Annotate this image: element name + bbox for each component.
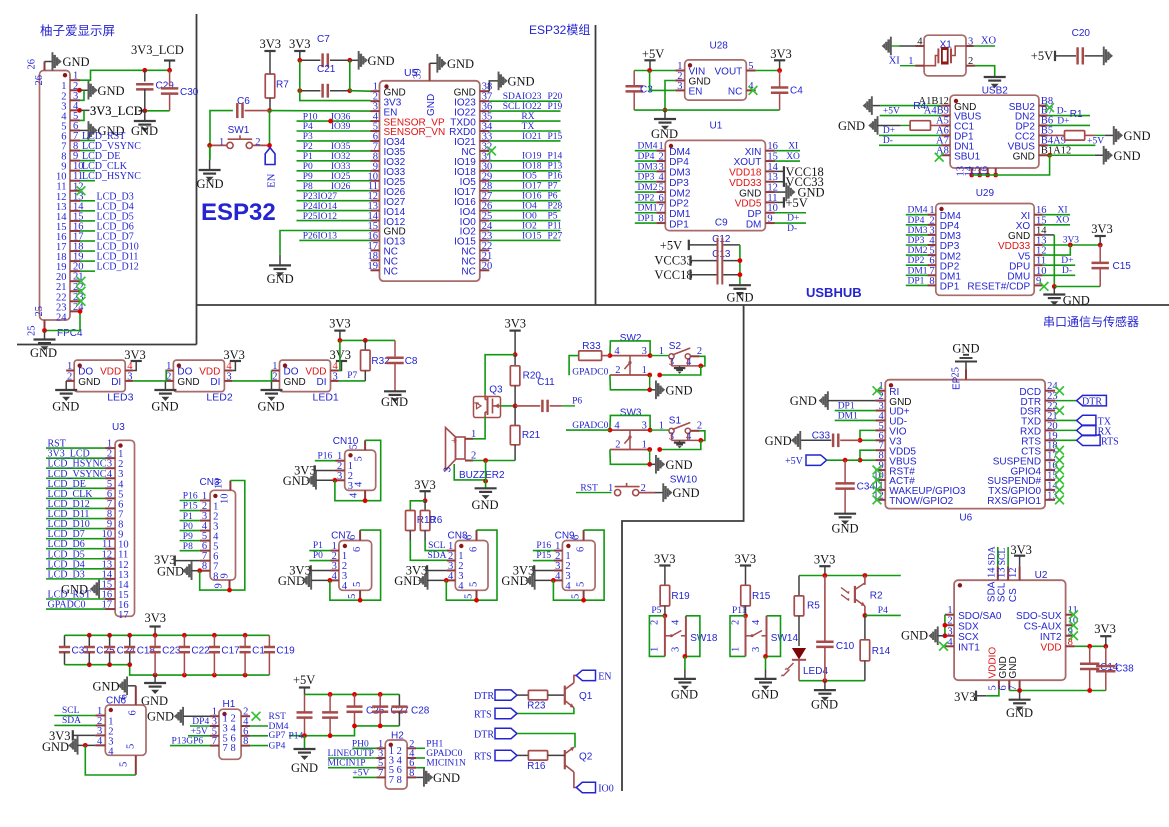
wire net LCD_D6 (46, 548, 105, 550)
svg-text:GND: GND (258, 400, 285, 414)
svg-text:3V3: 3V3 (505, 317, 527, 331)
svg-text:2: 2 (615, 440, 620, 451)
svg-text:GND: GND (278, 574, 305, 588)
wire net LCD_HSYNC (80, 180, 95, 182)
wire net P16 CN10 (315, 460, 336, 462)
wire net DP3 U1 (635, 181, 657, 183)
svg-text:+5V: +5V (1087, 137, 1104, 147)
svg-text:8: 8 (243, 736, 248, 747)
svg-text:ESP32: ESP32 (201, 199, 276, 226)
wire 3V3 rail LED4 (799, 575, 901, 577)
svg-text:GND: GND (151, 400, 178, 414)
svg-text:5: 5 (349, 444, 360, 449)
svg-text:GND: GND (952, 342, 979, 356)
capacitor C4 (779, 71, 781, 88)
wire net LCD_RST (80, 140, 95, 142)
wire R10 to SDA (410, 531, 447, 561)
svg-text:5: 5 (352, 582, 363, 587)
wire U2 pins 1-3 gnd (944, 615, 946, 636)
svg-text:2: 2 (650, 620, 661, 625)
no-connect U2 right pin10 (1069, 621, 1078, 630)
svg-text:+5V: +5V (1031, 49, 1053, 63)
wire net DM4 U29 (906, 214, 928, 216)
svg-text:2: 2 (659, 152, 664, 163)
svg-text:GND: GND (671, 688, 698, 702)
svg-text:1: 1 (908, 56, 913, 67)
resistor R14 (864, 615, 866, 639)
svg-text:7: 7 (212, 736, 217, 747)
svg-text:DM2: DM2 (638, 183, 658, 193)
capacitor C25 (88, 635, 90, 647)
gnd flag C20 (1103, 47, 1105, 66)
svg-text:GND: GND (291, 761, 318, 775)
wire net P23IO27 (297, 200, 371, 202)
wire net P0 CN7 (309, 560, 330, 562)
resistor R7 (265, 74, 275, 98)
svg-text:2: 2 (730, 620, 741, 625)
wire net LCD_D6 (80, 230, 95, 232)
svg-text:25: 25 (27, 326, 38, 337)
svg-text:P5: P5 (651, 606, 661, 616)
wire 3V3 rail R32 C8 (340, 339, 395, 341)
svg-text:NC: NC (728, 87, 742, 98)
no-connect U6 right pin18 (1055, 446, 1064, 455)
svg-text:H2: H2 (391, 731, 404, 742)
resistor R6 (424, 501, 426, 511)
svg-text:12: 12 (1008, 568, 1019, 579)
svg-text:INT1: INT1 (958, 642, 980, 653)
svg-text:IO36: IO36 (331, 112, 351, 122)
ground small S2 (679, 366, 681, 368)
capacitor C24 (109, 635, 111, 647)
svg-text:24: 24 (56, 312, 67, 323)
led driver LED1 (280, 360, 331, 392)
wire net P1 (297, 160, 371, 162)
no-connect U2 right pin11 (1069, 610, 1078, 619)
bottom pins U2 (998, 680, 1000, 689)
wire net D- U1 (775, 222, 806, 224)
wire S1 to gnd (700, 431, 705, 441)
svg-text:SDO-SUX: SDO-SUX (1016, 611, 1062, 622)
svg-text:4: 4 (458, 581, 464, 592)
svg-text:9: 9 (214, 583, 225, 588)
svg-text:VDD: VDD (305, 367, 326, 378)
ic U29 (936, 204, 1034, 296)
wire net DM1 U6 (835, 419, 876, 421)
svg-text:3V3: 3V3 (414, 478, 436, 492)
svg-text:C34: C34 (857, 482, 876, 493)
connector CN10 (345, 450, 376, 490)
capacitor unnamed B (329, 694, 331, 712)
svg-text:P7: P7 (548, 182, 558, 192)
wire net XO U1 (775, 160, 800, 162)
svg-text:1: 1 (730, 647, 741, 652)
ground SW18 (684, 656, 686, 669)
no-connect U6 right pin17 (1055, 456, 1064, 465)
resistor R32 (364, 340, 366, 350)
wire CN7 gnd loop (330, 530, 381, 600)
port flag TX U6 (1077, 415, 1096, 425)
svg-text:LED2: LED2 (206, 392, 232, 404)
svg-text:NC: NC (461, 267, 475, 278)
svg-text:P28: P28 (548, 201, 563, 211)
svg-text:P24IO14: P24IO14 (303, 202, 338, 212)
svg-text:SCL: SCL (503, 102, 521, 112)
svg-text:IO15: IO15 (522, 231, 542, 241)
wire net P15 (180, 510, 200, 512)
svg-text:SDA: SDA (503, 92, 522, 102)
svg-text:SW14: SW14 (771, 633, 799, 644)
svg-text:LCD_HSYNC: LCD_HSYNC (82, 171, 141, 182)
wire net P13GP6 (170, 745, 210, 747)
svg-text:DP4: DP4 (192, 717, 209, 727)
svg-text:VCC18: VCC18 (654, 268, 692, 282)
wire net DP1 U29 (906, 284, 928, 286)
wire VOUT to 3V3 (756, 70, 780, 72)
svg-text:3: 3 (348, 481, 353, 492)
wire CN9 gnd loop (553, 530, 604, 600)
svg-text:GND: GND (131, 124, 158, 138)
svg-text:5: 5 (469, 582, 480, 587)
svg-text:10: 10 (214, 479, 225, 490)
side pin6 CN9 (583, 530, 585, 540)
svg-text:3: 3 (642, 346, 647, 357)
svg-text:SDO/SA0: SDO/SA0 (958, 611, 1002, 622)
wire net P4 (297, 130, 371, 132)
svg-text:D+: D+ (1061, 256, 1073, 266)
wire net P9 (297, 180, 371, 182)
wire loop right SW14 (767, 616, 781, 657)
svg-text:SCX: SCX (958, 632, 979, 643)
wire loop right SW18 (686, 616, 700, 657)
svg-text:C7: C7 (317, 34, 330, 45)
wire net XI U1 (775, 150, 800, 152)
svg-text:5: 5 (126, 744, 137, 749)
net 3V3_LCD at pin4 (139, 110, 145, 112)
svg-text:2: 2 (697, 346, 702, 357)
svg-text:串口通信与传感器: 串口通信与传感器 (1043, 314, 1139, 329)
wire net DP3 U29 (906, 244, 928, 246)
junction P10 IO36 (328, 119, 333, 124)
wire EN to U5 pin3 (270, 110, 371, 113)
svg-text:4: 4 (555, 571, 561, 582)
svg-text:GND: GND (283, 474, 310, 488)
no-connect U2 pin4 (939, 642, 948, 651)
wire net P0 (297, 170, 371, 172)
wire TXD U6 (1055, 419, 1077, 421)
svg-text:C1: C1 (252, 646, 265, 657)
port flag RTS U6 (1077, 435, 1101, 445)
ground SW1 (209, 145, 211, 160)
svg-text:4: 4 (448, 571, 454, 582)
wire net LCD_VSYNC (80, 150, 95, 152)
wire net LCD_D7 (80, 240, 95, 242)
svg-text:GND: GND (447, 57, 474, 71)
svg-text:INT2: INT2 (1040, 632, 1062, 643)
ground C8 (384, 390, 406, 392)
svg-text:IO16: IO16 (522, 191, 542, 201)
svg-text:C9: C9 (715, 218, 728, 229)
svg-text:MICIN1N: MICIN1N (426, 759, 466, 769)
wire net PH0 (352, 747, 376, 749)
resistor R23 (517, 694, 528, 696)
svg-text:RESET#/CDP: RESET#/CDP (967, 282, 1030, 293)
svg-text:U29: U29 (976, 188, 995, 199)
svg-text:R19: R19 (671, 591, 690, 602)
svg-text:C22: C22 (191, 646, 210, 657)
svg-text:EN: EN (267, 173, 278, 187)
wire net LCD_D12 (46, 507, 105, 509)
wire net LCD_D11 (80, 260, 95, 262)
wire U2 gnd rail (1008, 689, 1010, 690)
wire net GP4 (250, 745, 268, 747)
svg-text:D+: D+ (883, 126, 895, 136)
svg-text:U3: U3 (112, 422, 125, 433)
svg-text:7: 7 (378, 768, 383, 779)
svg-text:DP1: DP1 (638, 214, 655, 224)
svg-text:CS: CS (1008, 588, 1019, 602)
gnd flag U5 pin39 (436, 54, 438, 73)
svg-text:3V3: 3V3 (654, 552, 676, 566)
svg-text:GP4: GP4 (269, 741, 286, 751)
svg-text:GPADC0: GPADC0 (426, 749, 462, 759)
svg-text:SDA: SDA (988, 546, 998, 565)
wire U29 gnd rail (1052, 284, 1057, 289)
wire pin1 to 3V3_LCD (80, 70, 170, 80)
svg-text:DM1: DM1 (838, 411, 858, 421)
svg-text:1: 1 (219, 137, 224, 148)
svg-text:P6: P6 (548, 191, 558, 201)
connector CN8 (455, 541, 488, 591)
svg-text:17: 17 (118, 610, 129, 621)
gnd flag SW3 (650, 463, 656, 465)
svg-text:3V3: 3V3 (770, 47, 792, 61)
svg-text:C28: C28 (411, 706, 430, 717)
capacitor C3 (633, 71, 635, 87)
wire net MICIN1N right (416, 767, 425, 769)
svg-text:P13GP6: P13GP6 (172, 737, 204, 747)
wire net D+ U1 (775, 212, 806, 214)
svg-text:3: 3 (968, 37, 973, 48)
no-connect pin23 (77, 297, 86, 306)
svg-text:柚子爱显示屏: 柚子爱显示屏 (40, 23, 115, 38)
wire net IO2 (489, 230, 560, 232)
svg-text:C17: C17 (221, 646, 240, 657)
no-connect pin21 (77, 277, 86, 286)
wire net LCD_HSYNC (46, 467, 105, 469)
power +5V U1 pin11 (783, 197, 785, 207)
svg-text:P16: P16 (536, 541, 551, 551)
svg-text:GND: GND (63, 55, 90, 69)
svg-text:VDD5: VDD5 (735, 199, 762, 210)
svg-text:EN: EN (598, 671, 611, 682)
svg-text:P14: P14 (548, 152, 563, 162)
wire net DP4 (190, 725, 210, 727)
wire net LCD_CLK (46, 497, 105, 499)
side pin6 CN6 (135, 686, 137, 705)
svg-text:GND: GND (1013, 151, 1035, 162)
gnd flag pin26 (45, 61, 53, 63)
wire LED1 DI P7 (339, 380, 366, 382)
svg-text:5: 5 (748, 61, 753, 72)
capacitor C15 (1099, 245, 1101, 263)
svg-text:8: 8 (397, 775, 402, 786)
svg-text:XOUT: XOUT (734, 157, 762, 168)
wire net DM3 U1 (635, 170, 657, 172)
wire net PH1 right (416, 747, 425, 749)
svg-text:GND: GND (673, 486, 700, 500)
wire buzzer pin2 (465, 460, 473, 462)
wire tall caps bottom rail P14 (289, 726, 355, 736)
wire net D+ USB2 right (1048, 124, 1090, 126)
svg-text:+5V: +5V (785, 456, 804, 467)
wire net P9 (180, 540, 200, 542)
svg-text:SW10: SW10 (670, 474, 698, 485)
svg-text:GND: GND (765, 434, 792, 448)
svg-text:RXS/GPIO1: RXS/GPIO1 (987, 496, 1041, 507)
wire net SCL CN6 (54, 715, 95, 717)
wire net +5V USB2 (880, 115, 941, 117)
svg-text:6: 6 (347, 535, 358, 540)
svg-text:DM3: DM3 (908, 226, 928, 236)
ground X1 (984, 76, 1006, 78)
svg-text:2: 2 (947, 616, 952, 627)
svg-text:3V3: 3V3 (145, 611, 167, 625)
connector U3 (115, 440, 134, 616)
svg-text:GND: GND (1114, 149, 1141, 163)
resistor R1 (1048, 134, 1065, 136)
svg-text:DP1: DP1 (838, 402, 855, 412)
svg-text:P27: P27 (548, 231, 563, 241)
svg-text:SBU1: SBU1 (954, 151, 981, 162)
wire 3V3 to LED1 pin4 (339, 340, 340, 370)
svg-text:4: 4 (614, 420, 620, 431)
section border horizontal main (197, 304, 1169, 306)
wire net GP7 (250, 735, 268, 737)
svg-text:P8: P8 (183, 542, 193, 552)
svg-text:+5V: +5V (352, 768, 369, 778)
svg-text:8: 8 (231, 743, 236, 754)
ground LED3 (65, 381, 67, 390)
svg-text:R4: R4 (913, 101, 926, 112)
wire loop left SW18 (649, 616, 665, 657)
ic U2 (954, 580, 1066, 680)
svg-text:7: 7 (223, 743, 228, 754)
svg-text:TX: TX (522, 122, 535, 132)
svg-text:ESP32模组: ESP32模组 (529, 23, 590, 37)
svg-text:IO26: IO26 (331, 182, 351, 192)
svg-text:GND: GND (157, 565, 184, 579)
svg-text:4: 4 (108, 746, 114, 757)
led driver LED2 (173, 360, 224, 392)
no-connect U6 pin11 (873, 486, 882, 495)
side pin5 CN8 (476, 590, 478, 600)
no-connect U6 pin12 (873, 495, 882, 504)
wire net LCD_DE (46, 487, 105, 489)
wire net D+ U29 (1043, 264, 1076, 266)
no-connect U29 pin9 (1040, 282, 1049, 291)
wire CN10 gnd loop (335, 440, 381, 500)
svg-text:7: 7 (389, 775, 394, 786)
wire pin3 to pin2 (80, 90, 85, 100)
wire net IO18 (489, 170, 560, 172)
gnd flag U1 pin12 (775, 191, 786, 193)
svg-text:8: 8 (929, 276, 934, 287)
capacitor C23 (154, 635, 156, 647)
capacitor C18 (129, 635, 131, 647)
wire net LCD_DE (80, 160, 95, 162)
port flag EN (265, 148, 275, 165)
svg-text:P15: P15 (536, 551, 551, 561)
svg-text:1: 1 (608, 483, 613, 494)
svg-text:25: 25 (34, 306, 45, 317)
svg-text:DTR: DTR (1082, 397, 1102, 408)
wire buzzer pin3 gnd (454, 464, 485, 480)
svg-text:4: 4 (917, 37, 923, 48)
svg-text:D+: D+ (1057, 116, 1069, 126)
no-connect U6 right pin15 (1055, 476, 1064, 485)
wire net LCD_D4 (46, 568, 105, 570)
side pin6 CN7 (359, 530, 361, 540)
wire net DM1 U1 (635, 212, 657, 214)
svg-text:C4: C4 (790, 86, 803, 97)
svg-text:SDA: SDA (62, 716, 81, 726)
svg-text:P3: P3 (303, 132, 313, 142)
svg-text:P11: P11 (548, 221, 563, 231)
svg-text:5: 5 (347, 594, 358, 599)
ground cap bank (154, 675, 156, 683)
wire net RX (489, 120, 560, 122)
power VCC33 U1 (783, 177, 785, 187)
svg-text:1: 1 (67, 361, 72, 372)
svg-text:RTS: RTS (474, 710, 492, 721)
svg-text:2: 2 (272, 371, 277, 382)
wire pin24 to gnd rail (45, 311, 81, 330)
capacitor C10 (824, 576, 826, 643)
svg-text:4: 4 (354, 481, 365, 487)
svg-text:6: 6 (576, 547, 587, 552)
svg-text:P5: P5 (548, 211, 558, 221)
wire net GPADC0 (46, 608, 105, 610)
svg-text:3: 3 (333, 371, 338, 382)
gnd flag R1 (1113, 126, 1115, 145)
svg-text:DP4: DP4 (638, 152, 655, 162)
svg-text:3V3: 3V3 (329, 317, 351, 331)
wire net IO19 (489, 160, 560, 162)
wire net P0 (180, 530, 200, 532)
svg-text:GND: GND (1006, 706, 1033, 720)
svg-text:9: 9 (220, 573, 231, 578)
svg-text:GND: GND (838, 119, 865, 133)
svg-text:C23: C23 (162, 646, 181, 657)
svg-text:GND: GND (790, 394, 817, 408)
wire net LCD_D10 (80, 250, 95, 252)
gnd flag SW2 (650, 389, 656, 391)
svg-text:IO0: IO0 (522, 211, 537, 221)
junction pin25 gnd (42, 328, 47, 333)
svg-text:D+: D+ (787, 214, 799, 224)
wire net P25IO12 (297, 220, 371, 222)
wire net LCD_D11 (46, 518, 105, 520)
svg-text:LCD_D3: LCD_D3 (48, 569, 85, 580)
svg-text:RST: RST (269, 712, 287, 722)
wire cap bank bottom rail left (65, 665, 270, 675)
svg-text:+5V: +5V (660, 239, 682, 253)
svg-text:C19: C19 (276, 646, 295, 657)
svg-text:EN: EN (689, 87, 703, 98)
svg-text:DM1: DM1 (908, 266, 928, 276)
ic U28 (685, 60, 747, 100)
